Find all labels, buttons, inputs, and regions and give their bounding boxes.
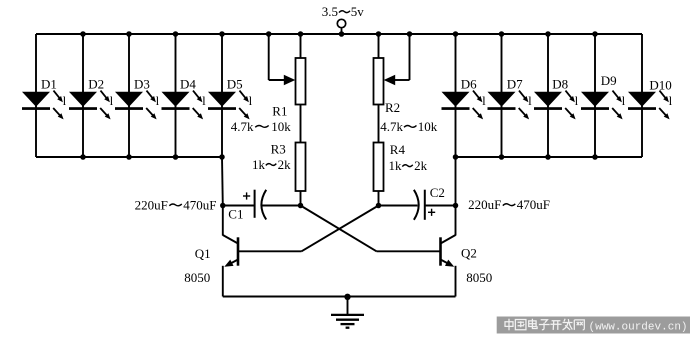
svg-text:D6: D6 — [461, 77, 477, 92]
svg-text:l: l — [622, 93, 626, 108]
svg-text:C2: C2 — [430, 185, 445, 200]
svg-text:3.5: 3.5 — [322, 4, 338, 19]
watermark banner — [497, 317, 690, 334]
wire Q1 emitter down — [222, 266, 224, 297]
junction right bus x501 — [499, 154, 505, 160]
junction top rail x341 — [339, 31, 345, 37]
wire D5 bus down to C1 — [221, 157, 224, 206]
LED D6 — [442, 91, 487, 120]
wire anode column D7 — [501, 34, 503, 157]
svg-text:D10: D10 — [649, 78, 671, 93]
wire emitter bottom rail — [223, 296, 456, 298]
label R1 value 4.7k~10k — [231, 119, 291, 134]
junction top rail x222 — [219, 31, 225, 37]
junction right bus x595 — [592, 154, 598, 160]
wire anode column D6 — [455, 34, 457, 157]
ground — [331, 297, 364, 328]
svg-text:220uF: 220uF — [468, 197, 501, 212]
svg-text:10k: 10k — [418, 119, 438, 134]
junction node A — [298, 203, 304, 209]
wire R2 to R4 — [378, 105, 380, 143]
wire anode column D10 — [641, 34, 643, 157]
junction left bus x129 — [126, 154, 132, 160]
LED D7 — [488, 91, 533, 120]
svg-text:l: l — [669, 93, 673, 108]
LED D5 — [208, 91, 253, 120]
svg-text:4.7k: 4.7k — [231, 119, 254, 134]
LED D3 — [115, 91, 160, 120]
svg-text:R2: R2 — [385, 100, 400, 115]
wire D6 bus down to C2 — [455, 157, 457, 206]
junction top rail x595 — [592, 31, 598, 37]
wire Q2 emitter down — [455, 266, 457, 297]
svg-text:4.7k: 4.7k — [380, 119, 403, 134]
junction top rail x378 — [376, 31, 382, 37]
junction top rail x501 — [499, 31, 505, 37]
svg-text:l: l — [202, 93, 206, 108]
svg-text:D5: D5 — [227, 77, 243, 92]
wire anode column D5 — [221, 34, 223, 157]
svg-text:470uF: 470uF — [183, 197, 216, 212]
wire anode column D4 — [175, 34, 177, 157]
svg-text:l: l — [575, 93, 579, 108]
wire C1 junction to collector — [222, 206, 224, 236]
junction right bus x548 — [545, 154, 551, 160]
svg-text:R3: R3 — [271, 142, 286, 157]
svg-text:470uF: 470uF — [517, 197, 550, 212]
svg-text:D1: D1 — [41, 77, 57, 92]
wiper arm R2 — [384, 34, 410, 85]
LED D8 — [534, 91, 579, 120]
svg-text:(www.ourdev.cn): (www.ourdev.cn) — [589, 322, 688, 334]
junction ground node — [344, 294, 350, 300]
wire anode column D8 — [547, 34, 549, 157]
LED D4 — [162, 91, 207, 120]
wire anode column D3 — [128, 34, 130, 157]
svg-text:l: l — [156, 93, 160, 108]
wire anode column D9 — [594, 34, 596, 157]
wire R3 to node A — [300, 191, 302, 206]
potentiometer R1 body — [296, 58, 306, 105]
transistor Q1 — [223, 235, 302, 267]
svg-text:D3: D3 — [134, 77, 150, 92]
svg-text:1k: 1k — [252, 157, 266, 172]
wire R4 to node B — [378, 191, 380, 206]
junction top rail x455 — [453, 31, 459, 37]
junction top rail x129 — [126, 31, 132, 37]
junction right bus x455 — [453, 154, 459, 160]
junction left bus x222 — [219, 154, 225, 160]
svg-text:10k: 10k — [271, 119, 291, 134]
resistor R4 body — [374, 143, 384, 192]
svg-text:C1: C1 — [228, 207, 243, 222]
capacitor C2 — [379, 190, 456, 220]
label R2 value 4.7k~10k — [380, 119, 438, 134]
LED D1 — [22, 91, 67, 120]
wire anode column D1 — [35, 34, 37, 157]
label R4 value 1k~2k — [389, 158, 428, 173]
svg-text:D8: D8 — [552, 77, 568, 92]
wire node A to Q2 base — [301, 206, 377, 252]
svg-text:l: l — [528, 93, 532, 108]
svg-text:l: l — [110, 93, 114, 108]
svg-text:D2: D2 — [88, 77, 104, 92]
wire C2 junction to collector — [455, 206, 457, 236]
junction top rail x83 — [80, 31, 86, 37]
svg-text:D9: D9 — [601, 73, 617, 88]
junction left bus x175 — [173, 154, 179, 160]
svg-text:8050: 8050 — [184, 270, 210, 285]
wiper arm R1 — [269, 34, 296, 85]
svg-text:220uF: 220uF — [135, 197, 168, 212]
junction top rail x175 — [173, 31, 179, 37]
svg-text:2k: 2k — [414, 158, 428, 173]
resistor R3 body — [296, 143, 306, 192]
transistor Q2 — [377, 235, 456, 267]
svg-text:l: l — [249, 93, 253, 108]
wire anode column D2 — [82, 34, 84, 157]
wire right LED bottom bus — [456, 156, 643, 158]
junction top rail x268 — [266, 31, 272, 37]
LED D2 — [69, 91, 114, 120]
svg-text:5v: 5v — [351, 4, 365, 19]
junction top rail x409 — [407, 31, 413, 37]
junction node C1 left — [220, 203, 226, 209]
junction node C2 right — [453, 203, 459, 209]
junction top rail x548 — [545, 31, 551, 37]
label C2 value 220uF~470uF — [468, 197, 550, 212]
svg-text:l: l — [63, 93, 67, 108]
wire left LED bottom bus — [36, 156, 222, 158]
potentiometer R2 body — [374, 58, 384, 105]
svg-text:D7: D7 — [507, 77, 523, 92]
svg-text:Q2: Q2 — [461, 246, 477, 261]
wire rail to R1 — [300, 34, 302, 58]
svg-text:D4: D4 — [180, 77, 196, 92]
label power voltage 3.5~5v — [322, 4, 365, 19]
label C1 value 220uF~470uF — [135, 197, 217, 212]
junction left bus x83 — [80, 154, 86, 160]
svg-text:2k: 2k — [278, 157, 292, 172]
capacitor C1 — [223, 190, 301, 220]
LED D9 — [581, 91, 626, 120]
wire node B to Q1 base — [302, 206, 379, 252]
power terminal 3.5-5v — [337, 19, 345, 35]
junction node B — [376, 203, 382, 209]
svg-text:1k: 1k — [389, 158, 403, 173]
wire R1 to R3 — [300, 105, 302, 143]
svg-text:Q1: Q1 — [195, 246, 211, 261]
wire top power rail — [36, 33, 642, 35]
LED D10 — [628, 91, 673, 120]
junction top rail x300 — [298, 31, 304, 37]
svg-text:R4: R4 — [390, 142, 406, 157]
svg-text:l: l — [482, 93, 486, 108]
svg-text:R1: R1 — [272, 104, 287, 119]
svg-text:8050: 8050 — [466, 270, 492, 285]
wire rail to R2 — [378, 34, 380, 58]
label R3 value 1k~2k — [252, 157, 291, 172]
